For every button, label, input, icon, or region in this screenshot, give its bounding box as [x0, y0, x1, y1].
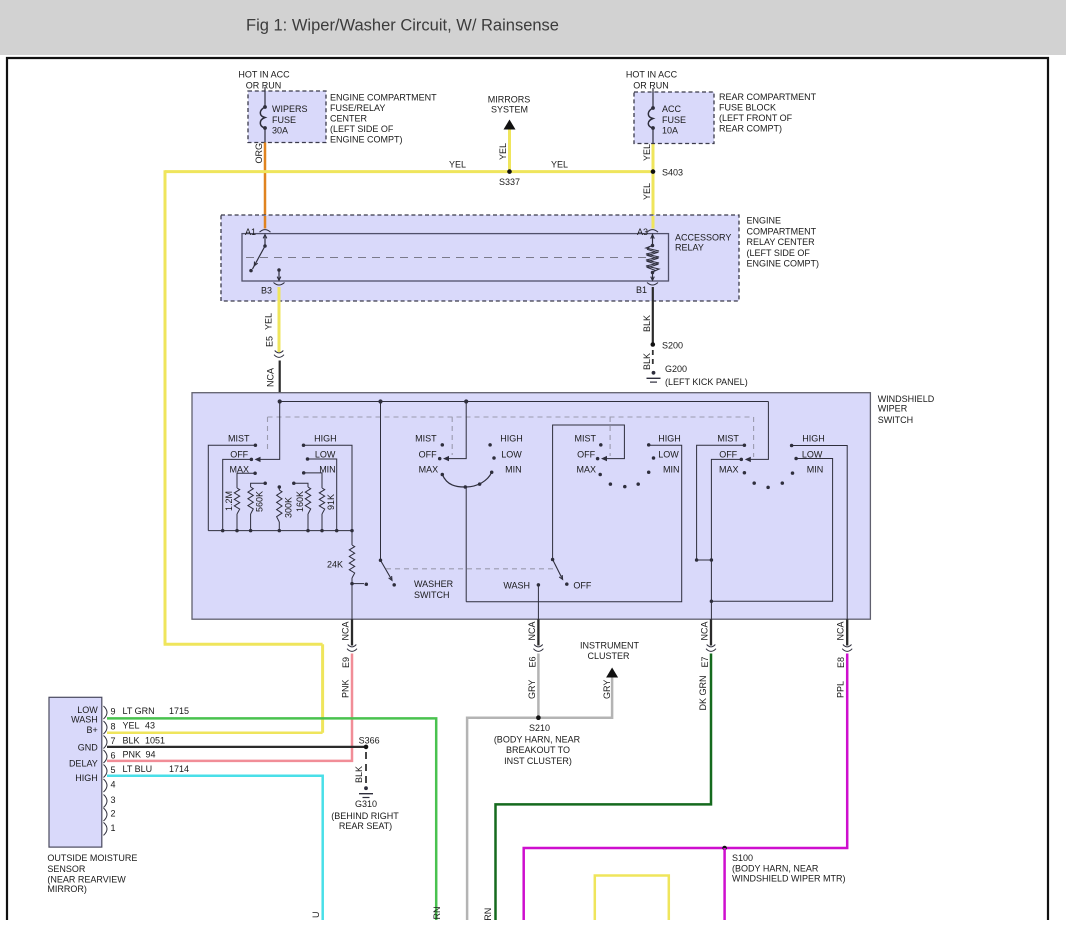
svg-text:3: 3	[111, 795, 116, 805]
dashed mechanical linkage top	[268, 417, 754, 457]
section 2 contacts	[438, 443, 496, 476]
svg-text:MAX: MAX	[576, 465, 596, 475]
svg-text:WINDSHIELD WIPER MTR): WINDSHIELD WIPER MTR)	[732, 874, 846, 884]
svg-text:PNK: PNK	[123, 750, 142, 760]
relay switch contacts	[249, 235, 281, 281]
label ACCESSORY RELAY	[675, 233, 731, 253]
svg-text:WASH: WASH	[503, 581, 530, 591]
switch section 2 labels	[415, 434, 523, 475]
svg-text:HIGH: HIGH	[658, 434, 681, 444]
section 3 contacts	[596, 443, 655, 488]
svg-text:WIPERS: WIPERS	[272, 104, 308, 114]
wire ORG fuse to relay A1	[254, 143, 265, 230]
svg-text:BREAKOUT TO: BREAKOUT TO	[506, 745, 570, 755]
svg-text:NCA: NCA	[266, 368, 276, 387]
section 4 wiper arm	[745, 402, 769, 463]
svg-text:CLUSTER: CLUSTER	[587, 651, 630, 661]
svg-text:300K: 300K	[284, 497, 294, 518]
svg-text:CENTER: CENTER	[330, 114, 368, 124]
svg-text:5: 5	[111, 765, 116, 775]
node S100	[722, 846, 753, 920]
wire GRY E6 to S210	[527, 654, 538, 718]
svg-text:43: 43	[145, 721, 155, 731]
svg-text:A3: A3	[637, 227, 648, 237]
svg-text:E6: E6	[528, 656, 538, 667]
svg-text:ENGINE: ENGINE	[747, 216, 782, 226]
pin A1	[245, 227, 271, 237]
connector E6	[527, 619, 543, 667]
accessory relay body U9	[242, 234, 669, 281]
svg-text:BLK: BLK	[354, 766, 364, 783]
fuse block box (engine compartment fuse/relay center)	[248, 91, 326, 143]
label WASHER SWITCH	[414, 579, 454, 600]
label HOT IN ACC OR RUN (right)	[626, 70, 678, 91]
svg-text:1051: 1051	[145, 735, 165, 745]
wire YEL horizontal bus S337/S403	[165, 160, 652, 172]
svg-text:NCA: NCA	[700, 621, 710, 640]
svg-text:B+: B+	[87, 725, 98, 735]
svg-text:HOT IN ACC: HOT IN ACC	[238, 70, 290, 80]
section 1 MIST contact wire	[208, 444, 257, 531]
svg-text:(BEHIND RIGHT: (BEHIND RIGHT	[331, 811, 399, 821]
svg-text:G310: G310	[355, 799, 377, 809]
svg-text:S210: S210	[529, 723, 550, 733]
relay outer box (engine compartment relay center)	[221, 215, 739, 301]
label S210 BODY HARN	[494, 735, 581, 767]
svg-text:MIN: MIN	[663, 465, 680, 475]
svg-text:(BODY HARN, NEAR: (BODY HARN, NEAR	[494, 735, 581, 745]
svg-text:OR RUN: OR RUN	[246, 81, 282, 91]
svg-text:ENGINE COMPARTMENT: ENGINE COMPARTMENT	[330, 93, 437, 103]
switch section 3 labels	[575, 434, 681, 475]
svg-text:A1: A1	[245, 227, 256, 237]
outside moisture sensor box	[49, 697, 102, 847]
svg-text:FUSE BLOCK: FUSE BLOCK	[719, 103, 776, 113]
wash contact + wire to E6	[503, 581, 540, 620]
svg-text:RN: RN	[432, 907, 442, 920]
node S210	[529, 715, 550, 733]
section 1 MAX contact + resistor 1.2M	[224, 471, 257, 530]
section 1 MIN contact + resistor 91K	[302, 471, 336, 530]
connector E9	[341, 619, 358, 668]
svg-text:MIN: MIN	[807, 465, 824, 475]
arrow to MIRRORS SYSTEM	[488, 95, 531, 130]
connector E5	[274, 351, 284, 358]
svg-text:(LEFT FRONT OF: (LEFT FRONT OF	[719, 113, 793, 123]
section 3 wiper arm from washer off contact	[553, 425, 625, 560]
svg-text:WASH: WASH	[71, 715, 98, 725]
svg-text:OUTSIDE MOISTURE: OUTSIDE MOISTURE	[47, 853, 137, 863]
wire YEL lower loop	[595, 876, 669, 921]
wire BLK S366 to G310	[354, 752, 366, 785]
svg-text:LOW: LOW	[658, 450, 679, 460]
svg-text:REAR COMPT): REAR COMPT)	[719, 124, 782, 134]
ground G200	[647, 364, 748, 387]
svg-text:S337: S337	[499, 177, 520, 187]
svg-text:SENSOR: SENSOR	[47, 864, 86, 874]
svg-text:4: 4	[111, 780, 116, 790]
svg-text:10A: 10A	[662, 126, 678, 136]
wire YEL 43 pin 8	[107, 732, 323, 735]
svg-text:MIST: MIST	[415, 434, 437, 444]
svg-text:OFF: OFF	[419, 450, 437, 460]
svg-text:NCA: NCA	[341, 621, 351, 640]
svg-text:B3: B3	[261, 286, 272, 296]
switch section 1 labels	[228, 434, 337, 475]
svg-text:(BODY HARN, NEAR: (BODY HARN, NEAR	[732, 864, 819, 874]
wire BLK S200 to G200	[642, 350, 653, 370]
wire GRY S210 left drop	[467, 718, 538, 920]
node S210 junction dot	[536, 715, 541, 720]
svg-text:PPL: PPL	[836, 681, 846, 698]
wire feed bus inside switch	[278, 399, 769, 403]
section 1 LOW contact wire	[306, 457, 337, 530]
svg-text:E8: E8	[836, 657, 846, 668]
svg-text:SWITCH: SWITCH	[414, 590, 450, 600]
svg-text:ACCESSORY: ACCESSORY	[675, 233, 731, 243]
svg-text:1714: 1714	[169, 764, 189, 774]
svg-text:BLK: BLK	[123, 735, 140, 745]
label ENGINE COMPARTMENT RELAY CENTER	[747, 216, 820, 269]
section 4 HIGH contact wire / E8 drop	[792, 446, 848, 620]
label WINDSHIELD WIPER SWITCH	[878, 394, 935, 425]
fuse WIPERS FUSE 30A	[260, 87, 307, 143]
svg-text:GRY: GRY	[602, 680, 612, 699]
svg-text:E9: E9	[341, 657, 351, 668]
svg-text:7: 7	[111, 736, 116, 746]
wire LT BLU pin 5	[107, 776, 323, 920]
sensor pin connectors 9..1	[104, 706, 116, 835]
svg-text:YEL: YEL	[264, 313, 274, 330]
svg-text:INST CLUSTER): INST CLUSTER)	[504, 756, 572, 766]
svg-text:8: 8	[111, 722, 116, 732]
svg-text:REAR COMPARTMENT: REAR COMPARTMENT	[719, 92, 817, 102]
node S200	[651, 341, 684, 351]
section 2 contact arc track	[442, 472, 491, 488]
wire NCA E5 to wiper switch	[266, 361, 280, 402]
svg-text:WASHER: WASHER	[414, 579, 454, 589]
svg-text:LT GRN: LT GRN	[123, 706, 155, 716]
svg-text:LOW: LOW	[77, 705, 98, 715]
section 4 MIST contact wire	[695, 445, 745, 561]
svg-text:WIPER: WIPER	[878, 404, 908, 414]
svg-text:OFF: OFF	[719, 450, 737, 460]
svg-text:RN: RN	[483, 908, 493, 921]
section 1 HIGH contact wire	[302, 444, 352, 531]
connector E7	[700, 619, 717, 667]
section 2 wiper arm	[443, 402, 466, 462]
label ENGINE COMPARTMENT FUSE/RELAY CENTER	[330, 93, 437, 145]
svg-text:S100: S100	[732, 853, 753, 863]
section 1 bottom bus	[208, 529, 353, 533]
svg-text:MAX: MAX	[719, 465, 739, 475]
wire PPL E8 to S100	[524, 654, 848, 921]
svg-text:ORG: ORG	[254, 143, 264, 164]
svg-text:ACC: ACC	[662, 104, 682, 114]
svg-text:OFF: OFF	[230, 450, 248, 460]
fuse block box (rear compartment fuse block)	[634, 92, 714, 144]
svg-text:NCA: NCA	[836, 621, 846, 640]
label HOT IN ACC OR RUN (left)	[238, 70, 290, 91]
washer off switch	[551, 558, 592, 591]
dashed linkage washer	[386, 568, 553, 570]
wire BLK B1 to S200	[642, 287, 653, 344]
svg-text:(NEAR REARVIEW: (NEAR REARVIEW	[47, 875, 126, 885]
svg-text:LOW: LOW	[501, 450, 522, 460]
title bar	[0, 0, 1066, 55]
sensor wire labels	[123, 706, 190, 774]
svg-text:9: 9	[111, 707, 116, 717]
svg-text:91K: 91K	[326, 494, 336, 510]
svg-text:MIRRORS: MIRRORS	[488, 95, 531, 105]
svg-text:HIGH: HIGH	[75, 773, 98, 783]
washer switch	[379, 402, 396, 587]
svg-text:HIGH: HIGH	[314, 434, 337, 444]
svg-text:YEL: YEL	[449, 160, 466, 170]
svg-text:BLK: BLK	[642, 353, 652, 370]
svg-text:HIGH: HIGH	[500, 434, 523, 444]
section 1 wiper arm (at OFF)	[255, 402, 280, 463]
svg-text:ENGINE COMPT): ENGINE COMPT)	[330, 135, 403, 145]
resistor 300K	[277, 485, 294, 530]
pin B3	[261, 283, 285, 296]
svg-text:1.2M: 1.2M	[224, 491, 234, 511]
svg-text:MIST: MIST	[228, 434, 250, 444]
svg-text:ENGINE COMPT): ENGINE COMPT)	[747, 259, 820, 269]
svg-text:OR RUN: OR RUN	[633, 81, 669, 91]
svg-text:G200: G200	[665, 364, 687, 374]
svg-text:LOW: LOW	[315, 450, 336, 460]
fuse ACC FUSE 10A	[648, 88, 686, 144]
svg-text:COMPARTMENT: COMPARTMENT	[747, 226, 817, 236]
svg-text:MIN: MIN	[505, 465, 521, 475]
svg-text:24K: 24K	[327, 560, 343, 570]
svg-text:BLK: BLK	[642, 315, 652, 332]
resistor 24K	[327, 531, 355, 584]
label OUTSIDE MOISTURE SENSOR	[47, 853, 137, 894]
svg-text:MIRROR): MIRROR)	[47, 884, 87, 894]
svg-text:RELAY: RELAY	[675, 243, 704, 253]
svg-text:YEL: YEL	[642, 183, 652, 200]
node S403	[642, 144, 683, 230]
windshield wiper switch box S1	[192, 393, 870, 620]
svg-text:E5: E5	[265, 336, 275, 347]
wire ORG inside relay box	[264, 216, 267, 229]
wire YEL left drop to sensor	[164, 170, 323, 733]
svg-text:U: U	[311, 912, 321, 919]
svg-text:30A: 30A	[272, 126, 288, 136]
label S100 BODY HARN	[732, 864, 846, 884]
svg-text:GND: GND	[78, 742, 99, 752]
resistor 560K	[248, 482, 267, 531]
svg-text:MIST: MIST	[575, 434, 597, 444]
wire LT GRN pin 9	[107, 718, 442, 920]
pin A3	[637, 227, 658, 237]
svg-text:DK GRN: DK GRN	[698, 675, 708, 710]
sensor pin function labels	[69, 705, 98, 783]
wire YEL inside relay box	[652, 216, 655, 229]
svg-text:2: 2	[111, 809, 116, 819]
svg-text:YEL: YEL	[551, 160, 568, 170]
svg-text:FUSE: FUSE	[272, 115, 296, 125]
svg-text:YEL: YEL	[123, 721, 140, 731]
svg-text:HOT IN ACC: HOT IN ACC	[626, 70, 678, 80]
node S337	[498, 128, 520, 187]
svg-text:S403: S403	[662, 168, 683, 178]
svg-text:Fig 1: Wiper/Washer Circuit, W: Fig 1: Wiper/Washer Circuit, W/ Rainsens…	[246, 17, 559, 35]
switch section 4 labels	[717, 434, 824, 475]
svg-text:OFF: OFF	[577, 450, 595, 460]
svg-text:560K: 560K	[255, 491, 265, 512]
svg-text:E7: E7	[700, 656, 710, 667]
section 4 OFF contact wire / E7 drop	[710, 459, 742, 619]
svg-text:INSTRUMENT: INSTRUMENT	[580, 641, 639, 651]
svg-text:PNK: PNK	[341, 679, 351, 698]
pin B1	[636, 283, 658, 296]
svg-text:SYSTEM: SYSTEM	[491, 104, 528, 114]
svg-text:FUSE/RELAY: FUSE/RELAY	[330, 103, 385, 113]
arrow to INSTRUMENT CLUSTER	[580, 641, 639, 678]
ground G310	[331, 786, 399, 831]
svg-text:6: 6	[111, 751, 116, 761]
svg-text:YEL: YEL	[642, 144, 652, 161]
svg-text:FUSE: FUSE	[662, 115, 686, 125]
svg-text:B1: B1	[636, 285, 647, 295]
section 4 LOW contact wire	[711, 459, 832, 602]
node S366	[359, 736, 380, 750]
svg-text:REAR SEAT): REAR SEAT)	[339, 821, 392, 831]
relay coil	[646, 234, 659, 281]
label REAR COMPARTMENT FUSE BLOCK	[719, 92, 817, 134]
svg-text:WINDSHIELD: WINDSHIELD	[878, 394, 935, 404]
svg-text:MAX: MAX	[419, 465, 439, 475]
svg-text:(LEFT SIDE OF: (LEFT SIDE OF	[330, 124, 394, 134]
wire GRY S210 to instrument cluster	[538, 678, 612, 718]
svg-text:1: 1	[111, 823, 116, 833]
section 1 OFF contact wire	[223, 458, 253, 531]
wire to E9 output	[351, 584, 353, 620]
svg-text:S366: S366	[359, 736, 380, 746]
svg-text:DELAY: DELAY	[69, 758, 98, 768]
svg-text:YEL: YEL	[498, 143, 508, 160]
svg-text:MIST: MIST	[717, 434, 739, 444]
svg-text:1715: 1715	[169, 706, 189, 716]
svg-text:SWITCH: SWITCH	[878, 415, 914, 425]
wire DK GRN E7 drop	[483, 654, 711, 921]
svg-text:S200: S200	[662, 341, 683, 351]
svg-text:LT BLU: LT BLU	[123, 764, 153, 774]
wire section2 common to section3 HIGH	[466, 445, 682, 601]
washer switch left contact	[350, 582, 368, 586]
resistor 160K	[292, 482, 311, 531]
svg-text:94: 94	[146, 750, 156, 760]
wire YEL B3 to connector E5	[264, 287, 280, 352]
svg-text:RELAY CENTER: RELAY CENTER	[747, 237, 816, 247]
svg-text:OFF: OFF	[573, 581, 591, 591]
wire PNK E9 to sensor pin 6	[107, 654, 352, 761]
svg-text:NCA: NCA	[527, 621, 537, 640]
section 2 common drop wire	[465, 487, 467, 602]
svg-text:(LEFT KICK PANEL): (LEFT KICK PANEL)	[665, 377, 748, 387]
connector E8	[836, 619, 853, 668]
section 4 contacts	[740, 444, 798, 490]
wire BLK 1051 pin 7 to S366	[107, 746, 366, 748]
svg-text:GRY: GRY	[527, 680, 537, 699]
svg-text:160K: 160K	[295, 491, 305, 512]
svg-text:(LEFT SIDE OF: (LEFT SIDE OF	[747, 248, 811, 258]
svg-text:HIGH: HIGH	[802, 434, 825, 444]
